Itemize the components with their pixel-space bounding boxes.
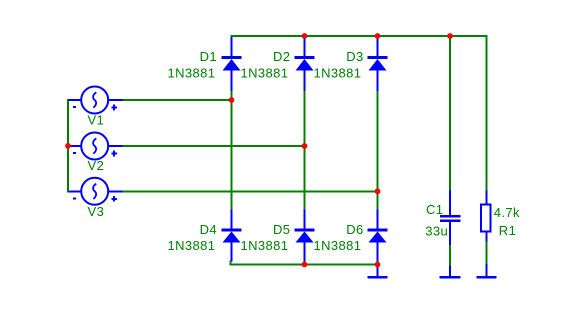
svg-text:C1: C1: [426, 202, 443, 217]
diode D6: [368, 210, 388, 278]
node: bottom rail / D6: [375, 262, 381, 268]
svg-text:R1: R1: [499, 223, 516, 238]
capacitor C1: [440, 191, 461, 246]
node: top rail / D3: [375, 33, 381, 39]
node: V3 / D3-D6: [375, 188, 381, 194]
svg-text:D5: D5: [273, 222, 290, 237]
svg-text:1N3881: 1N3881: [168, 66, 216, 81]
wire: drop to C1: [449, 36, 451, 192]
wire: V1 phase to bridge: [122, 99, 232, 101]
svg-text:33u: 33u: [425, 223, 448, 238]
svg-text:D1: D1: [200, 49, 217, 64]
node: top rail / C1: [447, 33, 453, 39]
diode D1: [222, 37, 242, 91]
node: V2 / D2-D5: [302, 143, 308, 149]
svg-text:1N3881: 1N3881: [241, 66, 289, 81]
svg-text:D4: D4: [200, 222, 217, 237]
node: neutral / V2: [65, 143, 71, 149]
resistor R1: [481, 191, 490, 242]
diode D2: [295, 37, 315, 91]
svg-text:1N3881: 1N3881: [314, 238, 362, 253]
ground (C1): [439, 266, 460, 278]
svg-text:4.7k: 4.7k: [494, 205, 520, 220]
wire: D1/D4 column: [231, 90, 233, 210]
wire: R1 to ground: [486, 241, 488, 265]
wire: right drop to R1: [486, 35, 488, 192]
node: bottom rail / D5: [302, 262, 308, 268]
wire: V2 phase to bridge: [122, 145, 305, 147]
wire: D2/D5 column: [304, 90, 306, 210]
ground (R1): [476, 264, 496, 277]
diode D3: [368, 37, 388, 91]
wire: C1 to ground: [449, 245, 451, 267]
voltage source V2: [69, 133, 123, 160]
svg-text:V1: V1: [88, 113, 105, 128]
svg-text:D3: D3: [346, 49, 363, 64]
voltage source V3: [69, 178, 123, 205]
svg-text:1N3881: 1N3881: [314, 66, 362, 81]
voltage source V1: [69, 87, 123, 114]
svg-text:1N3881: 1N3881: [168, 238, 216, 253]
node: top rail / D2: [302, 33, 308, 39]
svg-text:D2: D2: [273, 49, 290, 64]
svg-text:V3: V3: [88, 204, 105, 219]
diode D4: [222, 210, 242, 262]
wire: top positive rail: [231, 35, 488, 37]
wire: V3 phase to bridge: [122, 190, 378, 192]
node: V1 / D1-D4: [229, 97, 235, 103]
ground (D6): [367, 264, 387, 277]
svg-text:D6: D6: [346, 222, 363, 237]
wire: D3/D6 column: [377, 90, 379, 210]
diode D5: [295, 210, 315, 264]
wire: bottom rail: [231, 261, 379, 265]
svg-text:1N3881: 1N3881: [241, 238, 289, 253]
wire: left neutral bus: [67, 99, 69, 192]
svg-text:V2: V2: [88, 158, 105, 173]
